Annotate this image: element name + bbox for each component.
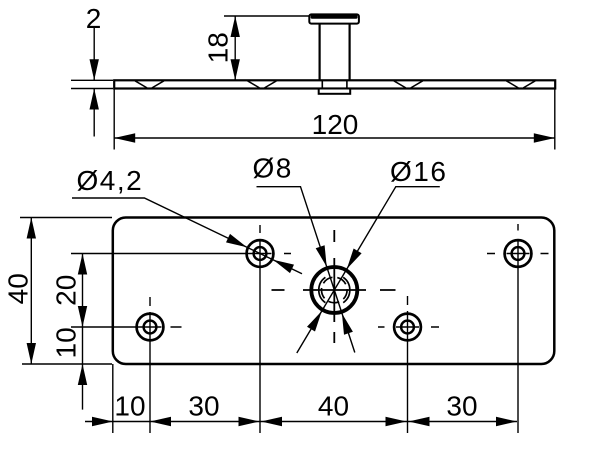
- centerline row y=327: [71, 326, 439, 328]
- dim 2: extension lines: [71, 80, 113, 88]
- side view: plate profile: [114, 80, 555, 88]
- stud bottom protrusion: [319, 89, 351, 94]
- plate surface mark 1: [135, 81, 164, 88]
- plate top view outline: [113, 218, 555, 365]
- bottom dim line: [85, 421, 517, 423]
- svg-text:10: 10: [50, 327, 81, 358]
- leader 16 arrows: [347, 249, 362, 270]
- column line x=407.5: [407, 296, 409, 433]
- plate surface mark 3: [394, 81, 423, 88]
- dim 40: line+arrows: [30, 218, 32, 365]
- dim 120: line+arrows: [114, 137, 555, 139]
- svg-text:120: 120: [312, 109, 359, 140]
- column line x=518: [517, 224, 519, 433]
- svg-text:18: 18: [203, 32, 234, 63]
- svg-text:20: 20: [50, 275, 81, 306]
- svg-text:40: 40: [318, 391, 349, 422]
- leader line 8: [257, 187, 355, 353]
- dim 18: line+arrows: [234, 16, 236, 80]
- hole 4.2 bottom-right: [394, 314, 421, 341]
- svg-text:Ø8: Ø8: [253, 153, 293, 184]
- leader 4,2 arrows: [226, 234, 247, 247]
- leader line 16: [297, 187, 440, 353]
- column line x=113 (plate left edge ext): [112, 364, 114, 433]
- leader 8 arrows: [316, 245, 327, 266]
- svg-text:2: 2: [86, 3, 102, 34]
- centerline row y=253.5: [71, 253, 549, 255]
- column line x=150: [149, 297, 151, 433]
- svg-text:Ø16: Ø16: [390, 156, 447, 187]
- svg-text:10: 10: [114, 391, 145, 422]
- stud cap flange: [309, 14, 359, 23]
- dim 20/10 line+arrows: [82, 254, 84, 410]
- dim 18: extension line: [224, 15, 309, 17]
- dim 120: extension lines: [114, 89, 555, 150]
- dim 2: upper leader+arrow: [93, 28, 95, 80]
- dim 2: lower leader+arrow: [93, 89, 95, 137]
- stud body (side view): [320, 24, 350, 81]
- svg-text:30: 30: [188, 391, 219, 422]
- hole 4.2 top-left: [247, 240, 274, 267]
- svg-text:30: 30: [446, 391, 477, 422]
- plate surface mark 2: [248, 81, 277, 88]
- svg-text:Ø4,2: Ø4,2: [77, 165, 144, 196]
- stud hole lines in plate: [322, 81, 347, 89]
- bottom dim arrows: [92, 417, 113, 426]
- hole 4.2 top-right: [505, 240, 532, 267]
- leader line 4,2: [72, 198, 302, 274]
- plate surface mark 4: [506, 81, 535, 88]
- hole 4.2 bottom-left: [137, 314, 164, 341]
- centerline center hole vertical: [333, 230, 335, 343]
- column line x=260: [259, 225, 261, 433]
- svg-text:40: 40: [3, 273, 34, 304]
- dim 40: extension lines: [20, 218, 112, 365]
- centerline center hole horizontal: [272, 289, 396, 291]
- center hole 8/16 circles: [311, 267, 357, 313]
